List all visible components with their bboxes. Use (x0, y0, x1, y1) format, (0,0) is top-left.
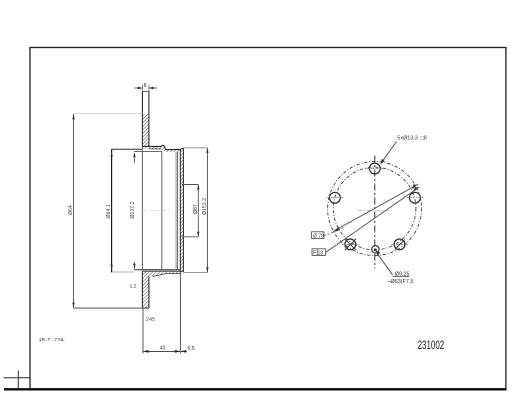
bolt hole top (367, 163, 384, 174)
bolt hole lower-left (342, 239, 359, 251)
svg-text:Ø153.2: Ø153.2 (202, 198, 208, 215)
svg-text:245: 245 (146, 317, 155, 323)
svg-text:Ø64: Ø64 (68, 205, 74, 215)
inner dash-dot circle (333, 167, 416, 250)
friction ring outer band (right, hatched) (180, 148, 183, 272)
boxed label F13 (312, 249, 326, 256)
svg-text:¬Ø63(F7.5: ¬Ø63(F7.5 (388, 279, 414, 285)
svg-text:F 13: F 13 (313, 250, 323, 256)
svg-text:Ø87: Ø87 (193, 204, 199, 214)
boxed label ⌀78 (312, 227, 346, 239)
bolt hole upper-right (407, 192, 424, 203)
svg-text:8: 8 (144, 83, 147, 89)
svg-text:1.2: 1.2 (130, 284, 137, 290)
dimension 8 (top) (135, 83, 158, 91)
leader to pin hole note (376, 250, 414, 285)
registration cross bottom-left (4, 371, 31, 390)
dimension ⌀87 (right inner) (182, 185, 200, 237)
LEFT VIEW: brake disc section (68, 83, 209, 354)
svg-text:Ø137.2: Ø137.2 (130, 201, 136, 218)
horizontal center dashes (358, 210, 392, 212)
top flange profile (142, 145, 180, 152)
bottom bar (hatched) (142, 271, 149, 308)
diagonal dimension line 2 (through centre) (326, 187, 420, 253)
bottom extension lines (143, 273, 180, 354)
svg-text:Ø64.1: Ø64.1 (106, 204, 112, 218)
hat bar (top cylinder wall) (142, 91, 149, 146)
leader to 5x⌀13.3 note (381, 135, 427, 164)
vertical centerline (374, 156, 376, 269)
faint horizontal centerline of section (141, 210, 172, 212)
svg-text:1R. T : 7 NL: 1R. T : 7 NL (39, 337, 65, 343)
diagonal dimension line 1 (through centre) (333, 184, 419, 232)
svg-text:□8: □8 (421, 135, 427, 141)
dimension ⌀64 (far left) (68, 114, 149, 308)
outer dash-dot circle (328, 162, 422, 256)
svg-text:6.5: 6.5 (188, 346, 195, 352)
dimension ⌀153.2 (far right) (184, 148, 209, 273)
RIGHT VIEW: bolt circle face (312, 135, 427, 285)
dimension ⌀137.2 (stubs with arrows) (130, 152, 136, 268)
svg-text:40: 40 (160, 346, 166, 352)
small pin hole bottom (372, 246, 379, 253)
dimension ⌀64.1 (rect left edge doubles as dim line) (106, 149, 113, 272)
svg-text:Ø9.25: Ø9.25 (395, 271, 410, 277)
bolt hole upper-left (327, 192, 344, 203)
dimension 6.5 (bottom right) (181, 346, 195, 353)
dimension 40 (bottom) (143, 346, 180, 353)
rect body outline / inner lines (112, 146, 181, 272)
svg-text:5xØ13.3: 5xØ13.3 (397, 135, 417, 141)
bolt hole lower-right (391, 239, 408, 250)
svg-text:231002: 231002 (418, 338, 445, 352)
svg-text:Ø 78: Ø 78 (313, 233, 324, 239)
bottom flange (hatched) (142, 271, 183, 276)
